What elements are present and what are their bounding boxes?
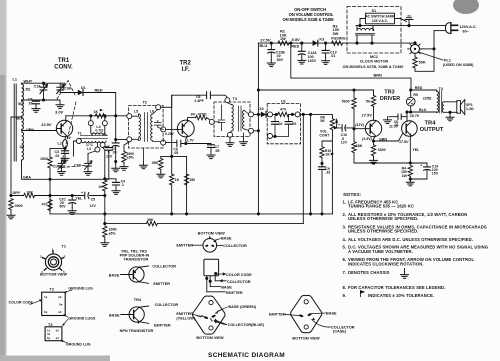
TR4 transistor bbox=[402, 121, 418, 137]
svg-text:BASE: BASE bbox=[326, 311, 337, 315]
junction bbox=[42, 82, 45, 85]
svg-text:COLLECTOR: COLLECTOR bbox=[227, 280, 251, 284]
svg-text:TR3: TR3 bbox=[384, 90, 394, 96]
junction bbox=[409, 110, 412, 113]
svg-text:470: 470 bbox=[280, 108, 286, 112]
svg-text:C1D: C1D bbox=[74, 163, 81, 167]
junction bbox=[309, 212, 312, 215]
svg-text:1.7V: 1.7V bbox=[187, 138, 195, 142]
scan border left bbox=[0, 0, 6, 361]
inverted ground on switch arm bbox=[405, 16, 413, 26]
svg-text:1.: 1. bbox=[343, 199, 347, 204]
ground bbox=[370, 157, 378, 164]
svg-text:YEL: YEL bbox=[75, 197, 83, 201]
vertical chain from T1 terminal 1 down bbox=[103, 147, 105, 178]
svg-text:120V.A.C.: 120V.A.C. bbox=[460, 25, 477, 29]
svg-text:7.: 7. bbox=[343, 270, 347, 275]
svg-text:EMITTER: EMITTER bbox=[269, 312, 286, 316]
svg-text:.02: .02 bbox=[55, 154, 60, 158]
ground bbox=[446, 114, 454, 121]
svg-text:470Ω: 470Ω bbox=[198, 113, 207, 117]
U1 dashed box bbox=[267, 104, 300, 144]
svg-text:S1: S1 bbox=[372, 9, 377, 13]
svg-text:5.: 5. bbox=[343, 245, 347, 250]
svg-text:125 V.A.C.: 125 V.A.C. bbox=[372, 19, 388, 23]
svg-text:COLLECTOR: COLLECTOR bbox=[223, 244, 247, 248]
ground bbox=[101, 240, 109, 247]
WHT wire top bbox=[22, 82, 66, 85]
svg-text:68K: 68K bbox=[356, 144, 363, 148]
C2C electrolytic bbox=[71, 196, 73, 208]
power diamond 2 bbox=[291, 295, 322, 332]
C14 electrolytic parallel bbox=[410, 163, 427, 179]
svg-text:L3: L3 bbox=[87, 147, 91, 151]
svg-text:GRY: GRY bbox=[13, 191, 21, 195]
svg-text:T3: T3 bbox=[232, 97, 236, 101]
svg-text:1K: 1K bbox=[98, 185, 103, 189]
junction bbox=[352, 127, 355, 130]
svg-text:ALL VOLTAGES ARE D.C. UNLESS O: ALL VOLTAGES ARE D.C. UNLESS OTHERWISE S… bbox=[348, 237, 473, 242]
switch S1 box bbox=[366, 13, 395, 24]
ground bbox=[406, 179, 414, 186]
ground bbox=[157, 171, 165, 178]
emitter rail y=115.8 bbox=[66, 115, 127, 117]
C6 2.4PF feedback line bbox=[172, 95, 227, 107]
svg-text:TR4: TR4 bbox=[134, 298, 142, 302]
svg-text:56: 56 bbox=[366, 100, 370, 104]
TR4 collector up to BLU bbox=[406, 112, 408, 122]
svg-text:GROUND LUGS: GROUND LUGS bbox=[68, 317, 96, 321]
svg-text:TR1: TR1 bbox=[58, 58, 70, 64]
svg-text:.05: .05 bbox=[291, 122, 296, 126]
svg-text:1.5Ω: 1.5Ω bbox=[23, 87, 31, 91]
TR3 emitter node bbox=[374, 136, 376, 141]
svg-text:FUSING: FUSING bbox=[331, 37, 345, 41]
L1 windings bbox=[22, 84, 24, 100]
capacitor C12B bbox=[270, 42, 273, 45]
BLU wire bbox=[407, 111, 437, 113]
svg-text:.05: .05 bbox=[173, 151, 178, 155]
audio line to volume pot bbox=[300, 114, 332, 118]
RED feed vertical x=115.7 bbox=[115, 116, 117, 165]
rail A bbox=[50, 213, 332, 215]
junction bbox=[409, 177, 412, 180]
svg-text:X2: X2 bbox=[259, 107, 264, 111]
svg-text:5600: 5600 bbox=[342, 100, 350, 104]
capacitor C13 bbox=[324, 42, 327, 45]
svg-text:CONV.: CONV. bbox=[54, 65, 73, 71]
junction bbox=[170, 155, 173, 158]
svg-text:39K: 39K bbox=[152, 161, 159, 165]
junction bbox=[413, 42, 416, 45]
svg-text:1K: 1K bbox=[175, 178, 180, 182]
C8 .01 cap to ground at TR3 emitter top bbox=[389, 116, 407, 118]
ground bbox=[112, 188, 120, 195]
3900 resistor under T2 bbox=[124, 142, 129, 152]
emitter down bbox=[186, 136, 188, 144]
svg-text:4.: 4. bbox=[343, 237, 347, 242]
L3 winding below bbox=[82, 141, 107, 143]
svg-text:EMITTER: EMITTER bbox=[154, 323, 171, 327]
1K resistor down bbox=[103, 180, 107, 191]
TR3 transistor bbox=[365, 120, 381, 136]
svg-text:.05: .05 bbox=[215, 149, 220, 153]
svg-text:BOTTOM VIEW: BOTTOM VIEW bbox=[198, 231, 226, 235]
junction bbox=[273, 135, 276, 138]
junction bbox=[257, 113, 260, 116]
AC plug bbox=[434, 30, 446, 32]
svg-text:17.5V: 17.5V bbox=[362, 113, 373, 118]
L4 winding horizontal bbox=[91, 126, 105, 133]
svg-text:COLLECTOR(BLUE): COLLECTOR(BLUE) bbox=[228, 323, 265, 327]
svg-text:R5: R5 bbox=[413, 93, 418, 97]
svg-text:COLOR CODE: COLOR CODE bbox=[9, 301, 34, 305]
svg-text:INDICATES CLOCKWISE ROTATION.: INDICATES CLOCKWISE ROTATION. bbox=[348, 261, 423, 266]
svg-text:1K: 1K bbox=[94, 110, 99, 114]
C10 electrolytic to TR3 base bbox=[337, 127, 353, 129]
svg-text:8V: 8V bbox=[67, 136, 72, 140]
svg-text:16.7V: 16.7V bbox=[410, 114, 420, 118]
svg-text:T1: T1 bbox=[78, 132, 82, 136]
svg-text:5Ω: 5Ω bbox=[18, 102, 23, 106]
junction bbox=[405, 110, 408, 113]
svg-text:TR2: TR2 bbox=[180, 60, 192, 66]
svg-text:L1: L1 bbox=[13, 77, 17, 81]
svg-text:A VACUUM TUBE VOLTMETER.: A VACUUM TUBE VOLTMETER. bbox=[348, 249, 413, 254]
svg-text:●2: ●2 bbox=[56, 329, 60, 333]
ground bbox=[56, 102, 64, 109]
svg-text:I.F.: I.F. bbox=[182, 67, 190, 73]
junction bbox=[358, 24, 361, 27]
svg-text:150: 150 bbox=[189, 178, 195, 182]
ground bbox=[140, 162, 148, 169]
svg-text:TUNING RANGE 535 — 1620 KC: TUNING RANGE 535 — 1620 KC bbox=[348, 204, 414, 209]
svg-text:9.: 9. bbox=[343, 293, 347, 298]
svg-text:BRN: BRN bbox=[374, 74, 382, 78]
svg-text:PL1: PL1 bbox=[444, 58, 451, 62]
3300 resistor bbox=[373, 141, 375, 145]
svg-text:BOTTOM VIEW: BOTTOM VIEW bbox=[196, 336, 224, 340]
svg-text:8.: 8. bbox=[343, 285, 347, 290]
diode D1 line (RED) bbox=[60, 92, 77, 94]
svg-text:(1.5V): (1.5V) bbox=[362, 137, 373, 141]
terminal bbox=[127, 114, 132, 119]
svg-text:13.9V: 13.9V bbox=[41, 122, 52, 127]
junction bbox=[42, 98, 45, 101]
svg-text:60~: 60~ bbox=[463, 30, 470, 34]
5600 from supply to TR3 base bbox=[352, 88, 355, 91]
svg-text:1W: 1W bbox=[402, 174, 408, 178]
svg-text:1●: 1● bbox=[44, 295, 48, 299]
svg-text:±5%: ±5% bbox=[127, 156, 135, 160]
ground bbox=[112, 165, 120, 172]
100K 5% resistor to ground bbox=[103, 226, 107, 237]
C3 cap to ground bbox=[64, 148, 66, 155]
svg-text:FOR CAPACITOR TOLERANCES SEE L: FOR CAPACITOR TOLERANCES SEE LEGEND. bbox=[348, 285, 445, 290]
C5 electrolytic horizontal bbox=[85, 192, 89, 199]
svg-text:50V: 50V bbox=[277, 58, 284, 62]
svg-text:5W: 5W bbox=[333, 32, 339, 36]
svg-text:BASE: BASE bbox=[221, 237, 232, 241]
junction bbox=[257, 212, 260, 215]
pot bottom chain down to rail A bbox=[322, 135, 332, 214]
GRA wire bbox=[22, 150, 109, 179]
speaker bbox=[450, 111, 457, 113]
svg-text:1500: 1500 bbox=[40, 157, 48, 161]
ground bbox=[298, 57, 306, 64]
svg-text:0.25V: 0.25V bbox=[165, 132, 175, 136]
junction bbox=[114, 160, 117, 163]
TR4 emitter chain bbox=[410, 136, 411, 163]
wire to T2 pin1 bbox=[116, 139, 127, 141]
svg-text:●2: ●2 bbox=[58, 295, 62, 299]
svg-text:BLU: BLU bbox=[419, 108, 427, 112]
svg-text:+: + bbox=[420, 163, 422, 167]
svg-text:.01: .01 bbox=[330, 54, 335, 58]
svg-text:3900: 3900 bbox=[15, 204, 23, 208]
svg-text:(YELLOW): (YELLOW) bbox=[176, 317, 196, 321]
ground bbox=[32, 105, 40, 112]
ground bbox=[120, 163, 128, 170]
R4 bbox=[408, 165, 412, 176]
svg-text:.1: .1 bbox=[121, 183, 124, 187]
resistor 1K with flag on rail bbox=[95, 114, 106, 118]
470 resistor on that chain bbox=[48, 200, 52, 211]
ORN base wire bbox=[22, 130, 57, 132]
svg-text:EMITTER: EMITTER bbox=[226, 291, 243, 295]
junction bbox=[409, 88, 412, 91]
svg-text:EMITTER: EMITTER bbox=[153, 282, 170, 286]
wiper arrow bbox=[334, 126, 338, 129]
svg-text:ON MODELS X22B & T2485: ON MODELS X22B & T2485 bbox=[283, 17, 335, 22]
node 8.5V RED bbox=[289, 42, 292, 45]
junction bbox=[275, 113, 278, 116]
junction bbox=[103, 177, 106, 180]
svg-text:EMITTER: EMITTER bbox=[176, 243, 193, 247]
svg-text:3.: 3. bbox=[343, 224, 347, 229]
C4 branch bbox=[105, 179, 116, 188]
ground bbox=[61, 155, 69, 162]
junction bbox=[103, 194, 106, 197]
svg-text:BOTTOM VIEW: BOTTOM VIEW bbox=[292, 336, 320, 340]
svg-text:1K: 1K bbox=[325, 153, 330, 157]
svg-text:50K: 50K bbox=[419, 60, 426, 64]
rail B with 39K bbox=[105, 223, 303, 225]
ground bbox=[68, 208, 76, 215]
ground bbox=[384, 117, 392, 124]
svg-text:DENOTES CHASSIS: DENOTES CHASSIS bbox=[348, 270, 390, 275]
T2 dashed box bbox=[129, 106, 164, 149]
svg-text:6●: 6● bbox=[47, 336, 51, 340]
svg-text:DRIVER: DRIVER bbox=[380, 96, 400, 102]
collector down to L2 bbox=[64, 136, 67, 140]
main vertical bus bbox=[257, 43, 259, 214]
svg-text:1.2Ω: 1.2Ω bbox=[466, 107, 474, 111]
svg-text:NPN TRANSISTOR: NPN TRANSISTOR bbox=[120, 329, 154, 333]
svg-text:COLOR CODE: COLOR CODE bbox=[226, 273, 252, 277]
svg-text:8V: 8V bbox=[191, 113, 196, 117]
svg-text:COLLECTOR: COLLECTOR bbox=[152, 265, 176, 269]
svg-text:T2: T2 bbox=[50, 288, 54, 292]
junction bbox=[320, 162, 323, 165]
svg-text:YEL: YEL bbox=[412, 148, 420, 152]
resistor R2 bbox=[278, 41, 289, 45]
svg-text:BOTTOM VIEW: BOTTOM VIEW bbox=[40, 272, 68, 276]
antenna coil L1: core bars bbox=[14, 84, 16, 161]
svg-text:BASE: BASE bbox=[109, 314, 120, 318]
line 50 -> 104.8 with C2C and C5 bbox=[50, 195, 105, 197]
svg-text:12V: 12V bbox=[90, 204, 97, 208]
svg-text:D1: D1 bbox=[81, 86, 86, 90]
svg-text:C1A: C1A bbox=[34, 85, 42, 89]
svg-text:T2: T2 bbox=[143, 101, 147, 105]
BRN wire bbox=[291, 43, 411, 90]
wire left to 1500 chain bbox=[50, 148, 65, 157]
C5 .05 to T2 pin4 bbox=[166, 142, 186, 145]
clock motor MC1 winding bbox=[357, 28, 374, 30]
svg-text:BASE: BASE bbox=[109, 274, 120, 278]
svg-text:5K: 5K bbox=[320, 119, 325, 123]
R5 circle component bbox=[410, 90, 412, 112]
svg-text:8.5V: 8.5V bbox=[292, 37, 301, 42]
svg-text:SCHEMATIC DIAGRAM: SCHEMATIC DIAGRAM bbox=[208, 352, 285, 359]
svg-text:.02: .02 bbox=[278, 122, 283, 126]
scan border bottom-left bbox=[0, 356, 110, 361]
svg-text:12V: 12V bbox=[106, 154, 113, 158]
svg-text:±5%: ±5% bbox=[109, 231, 117, 235]
svg-text:BLU: BLU bbox=[260, 44, 268, 48]
svg-text:C5: C5 bbox=[91, 198, 96, 202]
diode K3 bbox=[313, 40, 318, 46]
svg-text:5●: 5● bbox=[59, 303, 63, 307]
svg-text:6.: 6. bbox=[343, 257, 347, 262]
junction bbox=[71, 194, 74, 197]
svg-text:UNLESS OTHERWISE SPECIFIED.: UNLESS OTHERWISE SPECIFIED. bbox=[348, 229, 419, 234]
junction bbox=[409, 161, 412, 164]
svg-text:3.0V: 3.0V bbox=[55, 110, 64, 115]
junction bbox=[89, 114, 92, 117]
svg-text:COLLECTOR: COLLECTOR bbox=[155, 303, 179, 307]
TR2 transistor bbox=[177, 120, 194, 137]
diode X2 bbox=[258, 113, 260, 115]
ground bbox=[84, 168, 92, 175]
svg-text:39K: 39K bbox=[147, 218, 154, 222]
ground bbox=[322, 58, 330, 65]
T1 core bbox=[81, 136, 108, 139]
T3 grounds bbox=[229, 137, 231, 139]
56 ohm collector resistor bbox=[373, 93, 375, 120]
svg-text:INDICATES ± 10% TOLERANCE.: INDICATES ± 10% TOLERANCE. bbox=[368, 293, 434, 298]
ground bbox=[207, 152, 215, 159]
svg-text:0.7Ω: 0.7Ω bbox=[95, 129, 103, 133]
svg-text:3300: 3300 bbox=[378, 148, 386, 152]
transistor TR1 bbox=[56, 120, 72, 136]
svg-text:470: 470 bbox=[42, 203, 48, 207]
svg-text:TR4: TR4 bbox=[425, 120, 437, 126]
ground bbox=[401, 271, 409, 278]
junction bbox=[63, 147, 66, 150]
svg-text:.01: .01 bbox=[394, 123, 399, 127]
svg-text:+: + bbox=[338, 123, 340, 127]
junction bbox=[372, 139, 375, 142]
T3 interior: cap + windings bbox=[214, 105, 225, 131]
svg-text:RED: RED bbox=[415, 86, 423, 90]
svg-text:39: 39 bbox=[29, 101, 33, 105]
ground bbox=[267, 60, 275, 67]
svg-text:(USED ON X28B): (USED ON X28B) bbox=[443, 63, 474, 67]
AC line rail bbox=[356, 25, 446, 27]
junction bbox=[355, 42, 358, 45]
resistor R3 fusing bbox=[332, 41, 343, 45]
svg-text:BASE (GREEN): BASE (GREEN) bbox=[228, 305, 256, 309]
svg-text:.33: .33 bbox=[325, 170, 330, 174]
svg-text:+: + bbox=[81, 191, 83, 195]
svg-text:1W: 1W bbox=[280, 37, 286, 41]
ground bbox=[7, 212, 15, 219]
T3 to bus bbox=[254, 114, 259, 130]
ground bbox=[240, 139, 248, 146]
tap wire y=100 with C8 and ground bbox=[22, 100, 61, 102]
68K resistor bbox=[353, 129, 355, 142]
svg-text:EMITTER: EMITTER bbox=[176, 312, 193, 316]
verticals 1K and 150 to rail A bbox=[186, 156, 188, 214]
on-off switch note text bbox=[283, 7, 335, 22]
svg-text:ON MODELS X27B, X28B & T2490: ON MODELS X27B, X28B & T2490 bbox=[343, 65, 404, 69]
terminal bbox=[100, 142, 105, 147]
ground bbox=[226, 140, 234, 147]
svg-text:TRANSISTOR: TRANSISTOR bbox=[124, 257, 149, 261]
svg-text:CONT: CONT bbox=[319, 133, 330, 137]
junction bbox=[184, 142, 187, 145]
1500 resistor down bbox=[48, 157, 52, 168]
svg-text:160V: 160V bbox=[308, 59, 317, 63]
resistor 50K vertical bbox=[414, 55, 416, 70]
extra ground under T2 right bbox=[143, 148, 145, 162]
long vertical x=172 from C6 line to rail A bbox=[171, 95, 173, 214]
junction bbox=[214, 272, 217, 275]
svg-text:●3: ●3 bbox=[56, 336, 60, 340]
svg-text:2.: 2. bbox=[343, 212, 347, 217]
terminal bbox=[268, 112, 273, 117]
terminal bbox=[225, 98, 230, 103]
supply line y=90 bbox=[257, 88, 260, 91]
pilot lamp PL1 bbox=[415, 31, 434, 72]
junction bbox=[114, 138, 117, 141]
C2 .05 near T1 bbox=[103, 146, 109, 148]
power diamond 1 bbox=[193, 296, 225, 334]
svg-text:225Ω: 225Ω bbox=[423, 96, 432, 100]
junction bbox=[170, 212, 173, 215]
case side view bbox=[204, 259, 219, 276]
svg-text:L5: L5 bbox=[134, 109, 138, 113]
capacitor C12A bbox=[300, 42, 303, 45]
svg-text:BASE: BASE bbox=[221, 285, 232, 289]
T3 dashed box bbox=[214, 102, 250, 137]
ganging dashed lines bbox=[57, 81, 84, 171]
switch leads bbox=[360, 19, 401, 26]
svg-text:17.5V: 17.5V bbox=[399, 140, 409, 144]
3900 resistor to ground at far left bbox=[9, 199, 13, 210]
caps .02 and .05 inside U1 bbox=[274, 114, 276, 136]
wire to motor bbox=[343, 42, 415, 44]
junction bbox=[320, 212, 323, 215]
BLK tap to left rail bbox=[11, 117, 22, 196]
svg-text:T3: T3 bbox=[48, 323, 52, 327]
terminal bbox=[88, 121, 93, 126]
svg-text:OUTPUT: OUTPUT bbox=[420, 127, 444, 133]
verticals to rails bbox=[303, 114, 310, 223]
L3 terminals bbox=[76, 139, 81, 144]
